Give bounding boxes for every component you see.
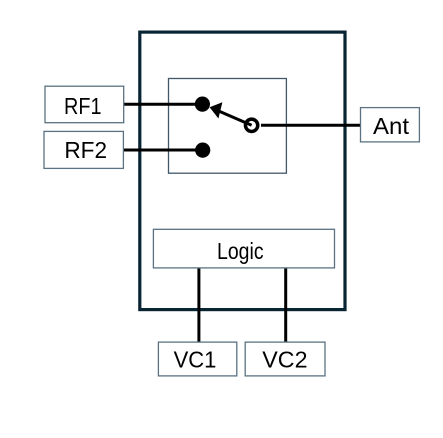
switch throw node RF2 (filled dot): [195, 143, 210, 158]
svg-text:VC2: VC2: [262, 347, 307, 373]
svg-text:RF2: RF2: [64, 137, 107, 163]
port box RF1: [45, 86, 124, 123]
wire common to Ant: [261, 124, 361, 127]
IC body U1 (outer rectangle): [140, 32, 345, 310]
switch arm arrowhead: [210, 102, 223, 118]
logic block: [153, 229, 334, 268]
control box VC1: [158, 342, 236, 376]
svg-text:Logic: Logic: [217, 238, 264, 264]
wire Logic to VC1: [197, 268, 200, 342]
svg-text:Ant: Ant: [373, 113, 409, 139]
control box VC2: [245, 342, 325, 376]
wire Logic to VC2: [284, 268, 287, 342]
svg-text:VC1: VC1: [174, 347, 217, 373]
wire RF2 to switch pole: [123, 149, 202, 152]
port box RF2: [44, 131, 123, 168]
switch cell boundary (inner rectangle): [169, 79, 287, 174]
switch throw node RF1 (filled dot): [195, 97, 210, 112]
switch arm from common toward RF1: [214, 109, 252, 125]
wire RF1 to switch pole: [124, 103, 203, 106]
svg-text:RF1: RF1: [64, 93, 102, 119]
switch common node (open circle): [245, 119, 257, 131]
port box Ant: [361, 108, 420, 142]
